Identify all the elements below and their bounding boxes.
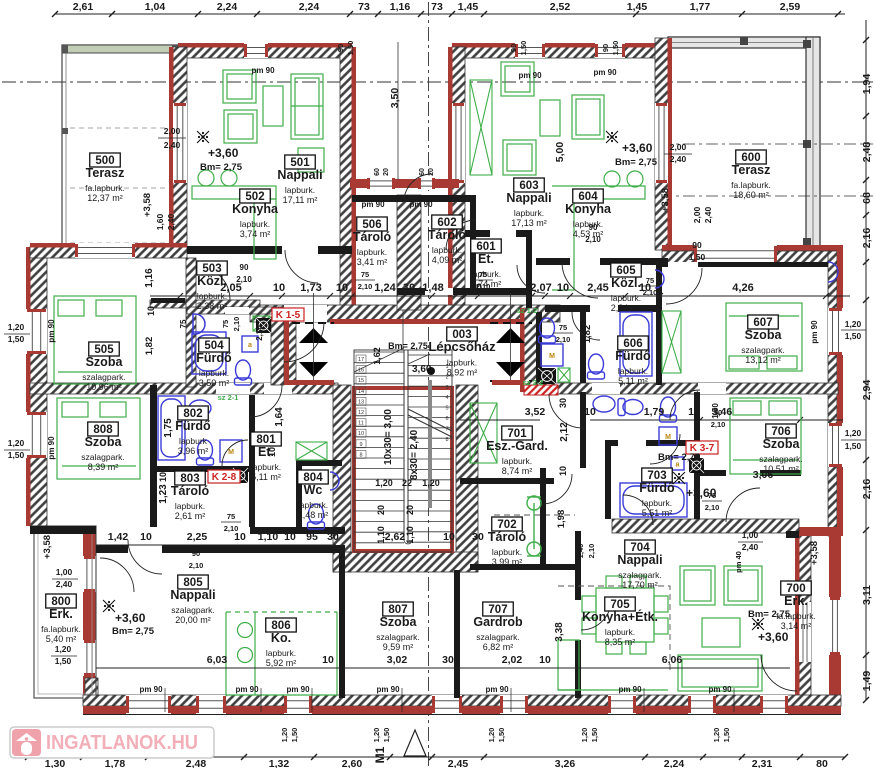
svg-text:10: 10 <box>557 282 569 294</box>
svg-text:3,74 m²: 3,74 m² <box>240 229 271 239</box>
svg-text:INGATLANOK.HU: INGATLANOK.HU <box>46 732 198 754</box>
svg-text:1,20: 1,20 <box>712 728 721 743</box>
svg-text:1,20: 1,20 <box>580 728 589 743</box>
svg-text:1,73: 1,73 <box>300 282 321 294</box>
room label 808 <box>81 422 124 472</box>
room label 003 <box>428 327 496 378</box>
partition bottom walls flat 8 <box>250 527 345 534</box>
svg-text:Bm= 2,75: Bm= 2,75 <box>615 157 658 168</box>
svg-text:5,00: 5,00 <box>554 142 566 163</box>
svg-text:2,45: 2,45 <box>587 282 608 294</box>
closet 607 <box>662 311 681 373</box>
svg-text:3,02: 3,02 <box>387 654 408 666</box>
svg-text:a: a <box>248 342 252 349</box>
svg-text:90: 90 <box>692 240 702 250</box>
partition wc 6 right wall <box>580 312 586 383</box>
staircase steps <box>354 310 452 552</box>
svg-text:12,37 m²: 12,37 m² <box>87 193 123 203</box>
svg-text:20: 20 <box>405 505 415 515</box>
svg-text:15: 15 <box>358 378 364 384</box>
stair core left wall <box>333 385 351 572</box>
svg-text:pm 90: pm 90 <box>376 685 400 694</box>
svg-text:75: 75 <box>708 491 716 500</box>
partition top of hall 605 <box>536 258 668 265</box>
room label 602 <box>428 215 467 265</box>
svg-text:1,82: 1,82 <box>582 325 593 344</box>
svg-text:Bm= 2,75: Bm= 2,75 <box>658 452 701 463</box>
svg-text:10: 10 <box>558 466 568 476</box>
svg-text:Gardrob: Gardrob <box>473 615 523 629</box>
svg-text:20: 20 <box>383 168 390 176</box>
svg-text:lapburk.: lapburk. <box>618 366 648 376</box>
svg-text:2,10: 2,10 <box>476 282 491 291</box>
svg-text:10: 10 <box>267 447 277 457</box>
svg-text:30: 30 <box>558 398 568 408</box>
svg-text:1,50: 1,50 <box>8 450 25 460</box>
room label 605 <box>611 263 642 313</box>
left spine wall lower <box>30 383 338 394</box>
svg-text:1,00: 1,00 <box>742 530 759 540</box>
partition right of hall 601 <box>526 237 532 308</box>
svg-text:90: 90 <box>714 408 722 417</box>
svg-text:2,40: 2,40 <box>742 542 759 552</box>
svg-text:30: 30 <box>403 282 415 294</box>
svg-text:fa.lapburk.: fa.lapburk. <box>41 624 81 634</box>
level marker flat8 <box>103 600 115 612</box>
svg-text:1,32: 1,32 <box>269 758 290 768</box>
svg-text:18,60 m²: 18,60 m² <box>733 190 769 200</box>
svg-text:73: 73 <box>431 1 443 13</box>
partition top of hall 601 <box>465 230 532 237</box>
svg-text:8: 8 <box>359 452 362 458</box>
svg-text:17,11 m²: 17,11 m² <box>283 195 318 205</box>
svg-text:1,42: 1,42 <box>108 531 129 543</box>
svg-text:11: 11 <box>358 421 364 427</box>
chimney lobby left <box>256 318 271 333</box>
red lining lobby bottom <box>289 380 334 385</box>
axis line horizontal upper <box>2 81 873 83</box>
svg-text:2,10: 2,10 <box>232 317 241 332</box>
room label 702 <box>488 517 527 567</box>
partition 704 right wall to balcony <box>786 531 799 538</box>
svg-text:75: 75 <box>227 512 235 521</box>
svg-text:2,24: 2,24 <box>664 758 685 768</box>
svg-text:Bm= 2,75: Bm= 2,75 <box>112 626 155 637</box>
svg-text:1,40: 1,40 <box>576 544 585 559</box>
svg-text:Lépcsőház: Lépcsőház <box>428 339 496 354</box>
svg-text:+3,60: +3,60 <box>622 141 653 155</box>
partition between 602 and 601 <box>470 202 476 290</box>
svg-text:Nappali: Nappali <box>277 168 322 182</box>
room label 804 <box>298 470 329 520</box>
svg-text:75: 75 <box>221 320 230 328</box>
stair lobby right wall <box>524 308 538 392</box>
room label 601 <box>471 239 502 289</box>
svg-text:10: 10 <box>584 406 596 418</box>
room label 707 <box>473 602 523 652</box>
partition right of 701 <box>580 392 586 468</box>
svg-text:2,02: 2,02 <box>502 654 523 666</box>
svg-text:30: 30 <box>327 531 339 543</box>
svg-text:90: 90 <box>601 44 610 52</box>
svg-text:2,24: 2,24 <box>217 1 238 13</box>
green trellis 603 <box>470 80 492 175</box>
svg-text:2,24: 2,24 <box>299 1 320 13</box>
svg-text:1,49: 1,49 <box>861 671 873 692</box>
svg-text:17,13 m²: 17,13 m² <box>511 218 547 228</box>
room label 704 <box>617 540 662 590</box>
partition below kitchen 502 <box>187 246 352 254</box>
svg-text:2,61 m²: 2,61 m² <box>175 511 206 521</box>
svg-text:2,84 m²: 2,84 m² <box>611 303 642 313</box>
bottom outer wall <box>83 695 841 706</box>
svg-text:30: 30 <box>472 531 484 543</box>
svg-text:3,99 m²: 3,99 m² <box>492 557 523 567</box>
right spine wall lower <box>536 383 838 394</box>
partition top of storage 506 and 602 <box>352 195 476 202</box>
partition right of bath 504 <box>271 318 284 385</box>
closet 701 <box>470 403 497 463</box>
svg-text:10x30= 3,00: 10x30= 3,00 <box>383 409 394 465</box>
svg-text:2,10: 2,10 <box>705 503 720 512</box>
svg-text:pm 90: pm 90 <box>47 436 56 460</box>
svg-text:1,50: 1,50 <box>497 728 506 743</box>
svg-text:Nappali: Nappali <box>170 588 215 602</box>
svg-text:2,10: 2,10 <box>255 325 264 341</box>
svg-text:73: 73 <box>358 1 370 13</box>
plant lobby right <box>558 368 570 382</box>
svg-text:1,20: 1,20 <box>372 728 381 743</box>
svg-text:2,00: 2,00 <box>164 126 181 136</box>
svg-text:75: 75 <box>361 270 369 279</box>
svg-text:Bm= 2,75: Bm= 2,75 <box>748 609 791 620</box>
svg-text:pm 90: pm 90 <box>251 66 275 75</box>
right outer wall lower corner <box>799 527 843 536</box>
svg-text:75: 75 <box>179 319 188 328</box>
room label 503 <box>197 261 228 311</box>
svg-text:90: 90 <box>240 263 249 272</box>
svg-text:10: 10 <box>322 654 334 666</box>
wc 804 fixtures <box>308 504 325 529</box>
svg-text:80: 80 <box>816 758 828 768</box>
svg-text:2,10: 2,10 <box>585 235 601 244</box>
wall right of living room 501 <box>340 47 352 315</box>
basin 804 right <box>655 270 664 288</box>
partition bottom of storages <box>397 288 532 295</box>
partition between 606 and 607 <box>656 264 662 385</box>
svg-text:90: 90 <box>192 549 200 558</box>
svg-text:1,50: 1,50 <box>611 41 620 56</box>
svg-text:lapburk.: lapburk. <box>251 462 281 472</box>
svg-text:lapburk.: lapburk. <box>175 501 205 511</box>
sofa set living room 704 <box>678 566 762 691</box>
svg-text:5,51 m²: 5,51 m² <box>642 508 673 518</box>
svg-text:3,52: 3,52 <box>525 406 546 418</box>
level marker flat5 <box>197 131 209 143</box>
svg-text:Tároló: Tároló <box>353 230 392 244</box>
svg-text:1,10: 1,10 <box>258 531 279 543</box>
svg-text:szalagpark.: szalagpark. <box>618 570 661 580</box>
lobby arrow triangle right up <box>496 328 525 343</box>
interior dimension row flat8 <box>96 544 336 546</box>
svg-text:lapburk.: lapburk. <box>502 456 532 466</box>
svg-text:10: 10 <box>539 654 551 666</box>
room label 506 <box>353 217 392 267</box>
room label 701 <box>486 426 548 476</box>
label K 2-8 <box>208 470 240 483</box>
room label 604 <box>565 189 612 239</box>
svg-text:Fürdő: Fürdő <box>639 481 675 495</box>
svg-text:lapburk.: lapburk. <box>199 368 229 378</box>
door arcs <box>285 250 318 283</box>
svg-text:3,96 m²: 3,96 m² <box>178 446 209 456</box>
room label 504 <box>196 338 232 388</box>
svg-text:1,64: 1,64 <box>274 407 285 427</box>
svg-text:pm 90: pm 90 <box>286 685 310 694</box>
svg-text:8x30= 2,40: 8x30= 2,40 <box>409 429 420 480</box>
closet 801 <box>296 442 327 460</box>
svg-text:lapburk: lapburk <box>179 436 208 446</box>
interior dimension row bottom <box>96 667 790 669</box>
svg-text:pm 90: pm 90 <box>518 71 542 80</box>
svg-text:pm 40: pm 40 <box>734 551 743 573</box>
right dimension column <box>865 20 867 700</box>
wc fixtures flat 7 <box>593 396 615 412</box>
svg-text:Ko.: Ko. <box>271 631 291 645</box>
svg-text:szalagpark.: szalagpark. <box>171 605 214 615</box>
svg-text:5,40 m²: 5,40 m² <box>46 634 77 644</box>
svg-text:1,50: 1,50 <box>845 441 862 451</box>
svg-text:1,10: 1,10 <box>405 526 415 544</box>
svg-text:3,06: 3,06 <box>753 469 774 481</box>
spine wall left segment <box>150 300 260 308</box>
room label 603 <box>506 178 551 228</box>
svg-text:Szoba: Szoba <box>380 615 418 629</box>
svg-text:lapburk.: lapburk. <box>605 627 635 637</box>
room label 606 <box>615 336 651 386</box>
svg-text:1,50: 1,50 <box>590 728 599 743</box>
partition walls flat 8 interior <box>150 385 157 527</box>
svg-text:Fürdő: Fürdő <box>196 351 232 365</box>
svg-text:pm 90: pm 90 <box>810 320 819 344</box>
svg-text:1,77: 1,77 <box>690 1 711 13</box>
svg-text:2,94: 2,94 <box>861 380 873 401</box>
svg-text:1,20: 1,20 <box>8 438 25 448</box>
svg-text:1,16: 1,16 <box>390 1 411 13</box>
svg-text:Bm= 2,75: Bm= 2,75 <box>388 341 428 351</box>
svg-text:pm 90: pm 90 <box>485 685 509 694</box>
wall left of living room 603 <box>452 47 465 315</box>
svg-text:90: 90 <box>509 44 518 52</box>
svg-text:1,20: 1,20 <box>375 478 393 488</box>
partition top of living 805 <box>96 545 345 553</box>
svg-text:3,38: 3,38 <box>554 622 565 642</box>
svg-text:Et.: Et. <box>478 252 494 266</box>
svg-text:75: 75 <box>559 323 567 332</box>
room label 700 <box>776 581 816 631</box>
svg-text:Konyha: Konyha <box>565 202 612 216</box>
svg-text:5,92 m²: 5,92 m² <box>266 658 297 668</box>
svg-text:2,25: 2,25 <box>187 531 208 543</box>
svg-text:szalagpark.: szalagpark. <box>82 372 125 382</box>
svg-text:lapburk.: lapburk. <box>447 358 477 368</box>
svg-text:68: 68 <box>861 192 873 204</box>
svg-text:8,35 m²: 8,35 m² <box>605 637 636 647</box>
room label 805 <box>170 575 215 625</box>
svg-text:pm 90: pm 90 <box>361 200 385 209</box>
room label 600 <box>731 150 771 200</box>
bath 504 fixtures <box>192 332 226 374</box>
kitchen 604 counter <box>552 171 645 290</box>
svg-text:6: 6 <box>445 416 448 422</box>
svg-text:+3,60: +3,60 <box>115 611 146 625</box>
svg-text:fa.lapburk.: fa.lapburk. <box>85 183 125 193</box>
partition right of living 805 <box>339 547 345 698</box>
svg-text:lapburk.: lapburk. <box>285 185 315 195</box>
svg-text:2,10: 2,10 <box>643 288 658 297</box>
svg-text:3,11: 3,11 <box>861 585 873 605</box>
svg-text:1,20: 1,20 <box>422 478 440 488</box>
bath 703 fixtures <box>620 483 687 517</box>
partition around bath 703 <box>605 440 700 446</box>
svg-text:2,38 m²: 2,38 m² <box>197 301 228 311</box>
svg-text:1,45: 1,45 <box>627 1 648 13</box>
svg-text:Esz.-Gard.: Esz.-Gard. <box>486 439 548 453</box>
svg-text:1,62: 1,62 <box>372 347 382 365</box>
svg-text:Terasz: Terasz <box>86 166 125 180</box>
svg-text:lapburk.: lapburk. <box>514 208 544 218</box>
svg-text:2,48: 2,48 <box>861 142 873 163</box>
svg-text:6,06: 6,06 <box>662 654 683 666</box>
svg-text:10: 10 <box>273 282 285 294</box>
svg-text:Szoba: Szoba <box>763 437 801 451</box>
svg-text:2,16: 2,16 <box>861 228 873 249</box>
room label 505 <box>82 342 125 392</box>
svg-text:lapburk.: lapburk. <box>298 500 328 510</box>
hatched wall between 703 and 704 <box>612 519 799 533</box>
sofa set living room 603 <box>501 62 604 175</box>
bottom dimension line <box>28 756 845 758</box>
svg-text:5: 5 <box>445 406 448 412</box>
svg-text:lapburk.: lapburk. <box>266 648 296 658</box>
svg-text:Fürdő: Fürdő <box>175 419 211 433</box>
svg-text:2,40: 2,40 <box>56 579 73 589</box>
svg-text:2,40: 2,40 <box>164 140 181 150</box>
svg-text:sz 2-1: sz 2-1 <box>218 393 239 402</box>
svg-text:Szoba: Szoba <box>85 435 123 449</box>
svg-text:lapburk.: lapburk. <box>357 247 387 257</box>
bed room 706 <box>730 398 801 474</box>
svg-text:1,20: 1,20 <box>845 319 862 329</box>
svg-text:6,03: 6,03 <box>207 654 228 666</box>
svg-text:2,10: 2,10 <box>711 420 726 429</box>
staircase step numbers <box>356 355 449 458</box>
level marker flat7 <box>673 472 685 484</box>
svg-text:Fürdő: Fürdő <box>615 349 651 363</box>
svg-text:Tároló: Tároló <box>488 530 527 544</box>
svg-text:1,16: 1,16 <box>144 268 155 288</box>
lobby arrow triangle right down <box>496 362 525 377</box>
svg-text:1,50: 1,50 <box>382 728 391 743</box>
svg-text:+3,60: +3,60 <box>758 630 789 644</box>
svg-text:pm 90: pm 90 <box>409 200 433 209</box>
kitchen 806 counter <box>226 612 337 695</box>
room label 801 <box>251 432 282 482</box>
room label 807 <box>376 602 419 652</box>
svg-text:+3,58: +3,58 <box>809 541 820 565</box>
svg-text:2,40: 2,40 <box>703 206 713 223</box>
level marker flat7 living room <box>752 618 764 630</box>
partition top of room 607 <box>662 262 828 267</box>
svg-text:2,07: 2,07 <box>530 282 551 294</box>
svg-text:6,82 m²: 6,82 m² <box>483 642 514 652</box>
green marks lobby <box>253 316 270 331</box>
svg-text:1,48: 1,48 <box>422 282 443 294</box>
bed room 607 <box>726 303 802 371</box>
partition bottom of room 808 <box>30 526 96 534</box>
svg-text:8,92 m²: 8,92 m² <box>447 368 478 378</box>
room label 802 <box>175 406 211 456</box>
svg-text:pm 90: pm 90 <box>593 68 617 77</box>
svg-text:Terasz: Terasz <box>732 163 771 177</box>
svg-text:10: 10 <box>358 431 364 437</box>
svg-text:2,10: 2,10 <box>556 335 571 344</box>
svg-text:Közl.: Közl. <box>611 276 641 290</box>
wc 6 fixtures <box>539 318 556 343</box>
svg-text:22: 22 <box>402 478 412 488</box>
partition right of room 505 <box>186 258 196 387</box>
svg-text:2,52: 2,52 <box>550 1 571 13</box>
svg-text:10: 10 <box>146 306 156 316</box>
svg-text:Szoba: Szoba <box>745 328 783 342</box>
svg-text:4: 4 <box>445 395 448 401</box>
lobby arrow triangle left down <box>299 362 328 377</box>
balcony 700 wall <box>799 532 811 704</box>
shaft wall between storages 506 602 <box>397 195 421 310</box>
svg-text:14: 14 <box>358 389 364 395</box>
svg-text:1,24: 1,24 <box>374 282 396 294</box>
lobby arrow triangle left up <box>299 328 328 343</box>
svg-text:szalagpark.: szalagpark. <box>741 345 784 355</box>
svg-text:Tároló: Tároló <box>428 228 467 242</box>
interior dimension row middle <box>150 295 850 297</box>
svg-text:szalagpark.: szalagpark. <box>476 632 519 642</box>
svg-text:30: 30 <box>442 654 454 666</box>
svg-text:9,59 m²: 9,59 m² <box>383 642 414 652</box>
svg-text:1,45: 1,45 <box>458 1 479 13</box>
svg-text:4,26: 4,26 <box>732 282 753 294</box>
svg-text:3: 3 <box>445 385 448 391</box>
partition left of bath 606 <box>536 312 542 383</box>
svg-text:1,50: 1,50 <box>290 728 299 743</box>
balcony corner hatch <box>85 678 98 700</box>
staircase break line <box>408 409 452 437</box>
svg-text:8,74 m²: 8,74 m² <box>502 466 533 476</box>
svg-text:Szoba: Szoba <box>86 355 124 369</box>
svg-text:+3,58: +3,58 <box>142 193 153 217</box>
room label 500 <box>85 153 125 203</box>
svg-text:1,50: 1,50 <box>689 252 706 262</box>
stair core bottom wall <box>333 552 478 572</box>
room label 501 <box>277 155 322 205</box>
svg-text:2,59: 2,59 <box>780 1 801 13</box>
svg-text:90: 90 <box>589 223 598 232</box>
svg-text:5,11 m²: 5,11 m² <box>251 472 281 482</box>
wall below terrace 600 <box>662 245 843 251</box>
bath 802 fixtures <box>158 396 185 460</box>
room label 607 <box>741 315 784 365</box>
svg-text:2,10: 2,10 <box>224 524 239 533</box>
